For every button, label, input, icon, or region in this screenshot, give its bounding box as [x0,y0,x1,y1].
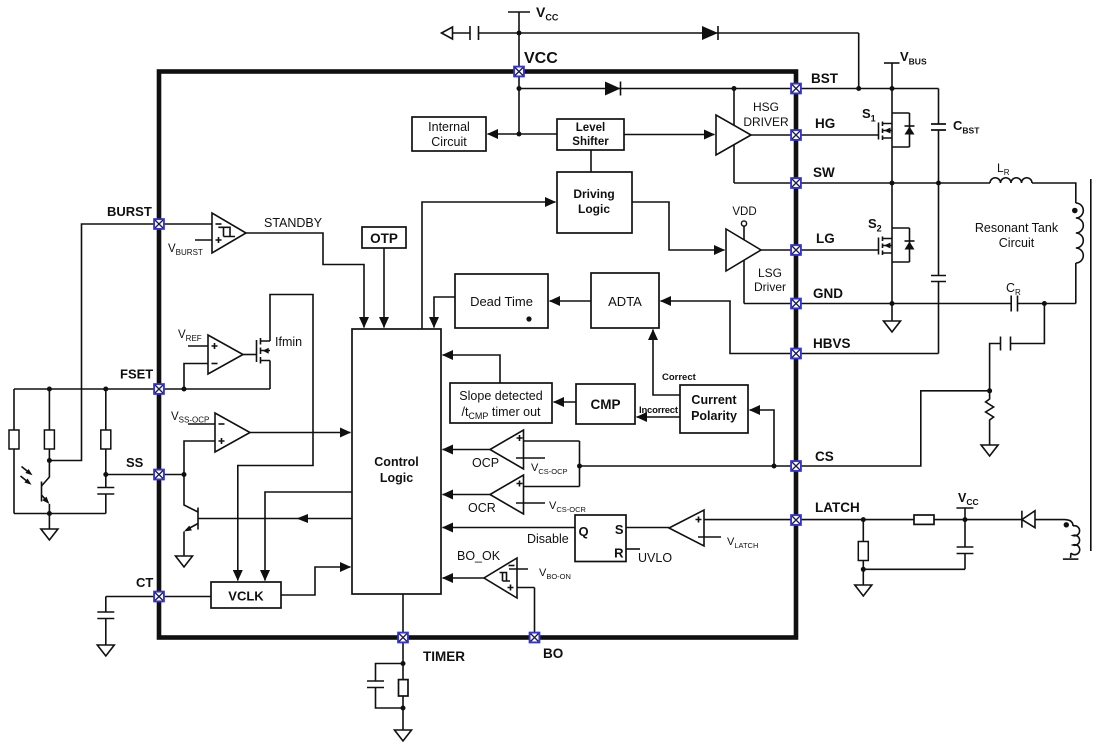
svg-text:Logic: Logic [578,202,610,216]
svg-text:VCC: VCC [524,50,558,67]
svg-text:VSS-OCP: VSS-OCP [171,411,209,425]
svg-text:BO: BO [543,646,563,661]
svg-text:VREF: VREF [178,329,202,343]
svg-text:Driving: Driving [573,187,614,201]
svg-text:TIMER: TIMER [423,649,465,664]
svg-text:Incorrect: Incorrect [639,405,679,416]
svg-text:OTP: OTP [370,231,398,246]
svg-text:Level: Level [576,122,605,134]
svg-text:SW: SW [813,165,835,180]
svg-text:S1: S1 [862,106,876,124]
svg-text:BST: BST [811,71,839,86]
svg-text:Correct: Correct [662,372,697,383]
svg-text:Disable: Disable [527,532,569,546]
svg-text:LR: LR [997,161,1010,177]
svg-text:HG: HG [815,116,835,131]
svg-text:R: R [614,546,624,561]
svg-text:VCLK: VCLK [228,589,264,604]
svg-text:OCP: OCP [472,456,499,470]
svg-text:FSET: FSET [120,367,153,382]
svg-text:CBST: CBST [953,118,980,136]
svg-text:HBVS: HBVS [813,336,851,351]
svg-text:Driver: Driver [754,280,786,294]
svg-text:VCS-OCP: VCS-OCP [531,462,568,476]
svg-text:Circuit: Circuit [999,236,1035,250]
svg-text:Q: Q [579,524,589,539]
svg-text:BURST: BURST [107,204,152,219]
svg-text:Logic: Logic [380,471,413,485]
svg-text:DRIVER: DRIVER [743,115,789,129]
svg-text:Slope detected: Slope detected [459,389,542,403]
svg-text:VCC: VCC [958,491,979,507]
svg-text:S2: S2 [868,216,882,234]
svg-text:Polarity: Polarity [691,409,737,423]
svg-text:ADTA: ADTA [608,294,642,309]
svg-text:CMP: CMP [591,397,621,412]
svg-text:LATCH: LATCH [815,500,860,515]
svg-text:VCC: VCC [536,4,559,23]
svg-text:Internal: Internal [428,120,470,134]
svg-text:Control: Control [374,455,418,469]
svg-text:VBUS: VBUS [900,49,927,67]
svg-text:SS: SS [126,455,144,470]
svg-text:VDD: VDD [732,206,756,218]
svg-text:BO_OK: BO_OK [457,549,501,563]
svg-text:Dead Time: Dead Time [470,294,533,309]
svg-text:Ifmin: Ifmin [275,335,302,349]
svg-text:Shifter: Shifter [572,136,609,148]
svg-text:HSG: HSG [753,100,779,114]
svg-text:LSG: LSG [758,266,782,280]
svg-text:VBURST: VBURST [168,243,203,257]
svg-text:VLATCH: VLATCH [727,536,758,550]
svg-text:Resonant Tank: Resonant Tank [975,221,1059,235]
svg-text:GND: GND [813,286,843,301]
svg-text:Current: Current [691,393,737,407]
svg-text:VCS-OCR: VCS-OCR [549,500,587,514]
svg-text:LG: LG [816,231,835,246]
svg-text:S: S [615,522,624,537]
svg-text:UVLO: UVLO [638,551,672,565]
svg-text:OCR: OCR [468,501,496,515]
svg-text:Circuit: Circuit [431,135,467,149]
svg-text:VBO-ON: VBO-ON [539,567,571,581]
svg-text:STANDBY: STANDBY [264,216,323,230]
svg-text:CS: CS [815,449,834,464]
svg-text:CR: CR [1006,281,1021,297]
svg-text:CT: CT [136,575,153,590]
